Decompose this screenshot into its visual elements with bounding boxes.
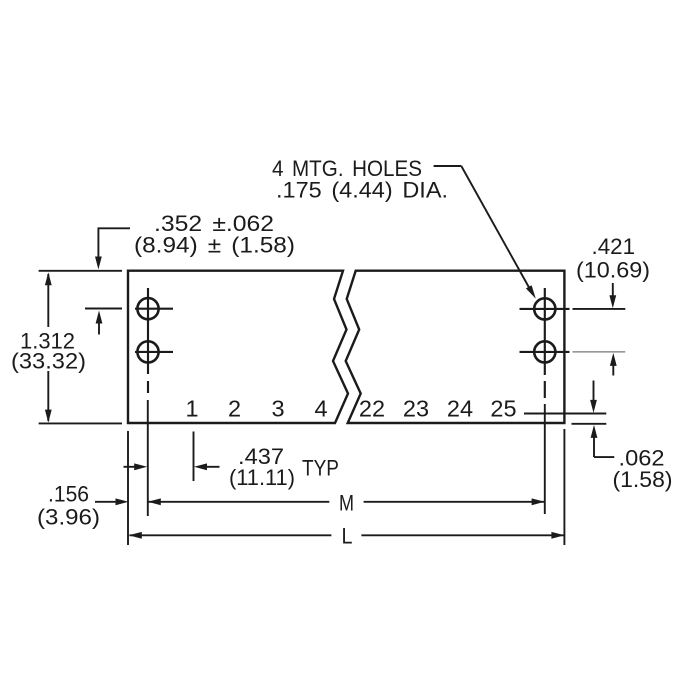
centerline left holes <box>147 288 149 516</box>
note .175 (4.44) DIA. <box>276 178 448 203</box>
dimension .421 arrows <box>609 283 616 376</box>
dimension .062 arrows and leader <box>590 381 614 458</box>
svg-text:2: 2 <box>228 396 241 422</box>
dimension text .352 ±.062 <box>154 211 274 236</box>
crosshair horizontal top-right hole <box>520 308 570 310</box>
pin number 22 <box>359 396 385 422</box>
extension line left edge below <box>127 431 129 545</box>
dimension line L <box>129 532 565 539</box>
part outline right section with break edge <box>346 271 565 423</box>
svg-text:(11.11): (11.11) <box>229 465 295 490</box>
extension line top edge left <box>39 270 122 272</box>
crosshair horizontal top-left hole <box>135 308 173 310</box>
pin number 25 <box>490 396 516 422</box>
svg-text:(8.94) ± (1.58): (8.94) ± (1.58) <box>134 233 295 258</box>
dimension text .421 <box>592 234 636 259</box>
svg-text:4: 4 <box>314 396 327 422</box>
dimension text M <box>339 491 354 516</box>
svg-text:(10.69): (10.69) <box>576 258 650 283</box>
dimension text (3.96) <box>37 505 100 530</box>
dimension text 1.312 <box>20 329 75 354</box>
dimension text (10.69) <box>576 258 650 283</box>
pin number 23 <box>403 396 429 422</box>
extension line upper-right hole center <box>573 308 626 310</box>
part outline left section with break edge <box>128 271 348 423</box>
dimension .437 arrows <box>124 463 220 470</box>
bottom edge extension right <box>572 423 607 425</box>
extension line lower-right hole center <box>573 351 626 353</box>
extension line pin 1 center <box>193 432 195 482</box>
dimension text (11.11) <box>229 465 295 490</box>
dimension text (1.58) <box>613 467 673 492</box>
mounting hole top-right <box>534 298 555 319</box>
mounting hole bottom-left <box>137 341 158 362</box>
svg-text:(1.58): (1.58) <box>613 467 673 492</box>
extension line right edge below <box>563 429 565 545</box>
pin number 4 <box>314 396 327 422</box>
svg-text:.175 (4.44) DIA.: .175 (4.44) DIA. <box>276 178 448 203</box>
mounting hole bottom-right <box>534 341 555 362</box>
dimension text L <box>342 524 353 549</box>
svg-text:24: 24 <box>447 396 473 422</box>
dimension text (33.32) <box>11 349 86 374</box>
dimension .352 ±.062 leader and arrows <box>95 228 130 334</box>
svg-text:.156: .156 <box>48 482 89 507</box>
dimension text .156 <box>48 482 89 507</box>
svg-text:22: 22 <box>359 396 385 422</box>
dimension text .437 <box>238 444 284 469</box>
svg-text:M: M <box>339 491 354 516</box>
svg-text:L: L <box>342 524 353 549</box>
dimension text .062 <box>619 446 665 471</box>
dimension text (8.94) ± (1.58) <box>134 233 295 258</box>
dimension line M <box>148 498 545 505</box>
pin number 24 <box>447 396 473 422</box>
extension line bottom edge left <box>39 422 122 424</box>
svg-text:23: 23 <box>403 396 429 422</box>
dimension .156 leader arrow <box>95 498 129 505</box>
dimension 1.312 line and arrows <box>45 272 52 422</box>
pin number 2 <box>228 396 241 422</box>
svg-text:1: 1 <box>185 396 198 422</box>
svg-text:TYP: TYP <box>302 456 339 481</box>
leader line to mounting hole <box>434 166 536 299</box>
svg-text:(3.96): (3.96) <box>37 505 100 530</box>
pin row line <box>524 413 606 415</box>
svg-text:25: 25 <box>490 396 516 422</box>
svg-text:3: 3 <box>271 396 284 422</box>
note 4 MTG. HOLES <box>272 156 422 181</box>
mounting hole top-left <box>137 298 158 319</box>
dimension text TYP <box>302 456 339 481</box>
pin number 3 <box>271 396 284 422</box>
pin number 1 <box>185 396 198 422</box>
crosshair horizontal bottom-left hole <box>135 351 173 353</box>
svg-text:(33.32): (33.32) <box>11 349 86 374</box>
svg-text:.421: .421 <box>592 234 636 259</box>
crosshair horizontal bottom-right hole <box>520 351 570 353</box>
extension line upper hole center <box>85 308 122 310</box>
centerline right holes <box>544 288 546 514</box>
